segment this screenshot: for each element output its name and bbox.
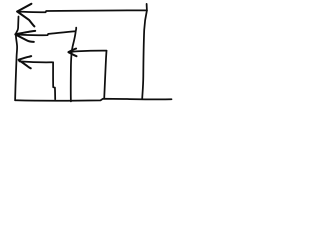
baseline (bottom horizontal line) bbox=[15, 99, 171, 101]
arrow A4 vertical (baseline up to its corner) bbox=[104, 51, 106, 99]
left vertical axis line bbox=[15, 17, 18, 101]
arrow A1 head (left-pointing, at top of axis) bbox=[17, 4, 31, 12]
arrow A1 right vertical (baseline up to top-right corner, with overshoot tick) bbox=[142, 4, 147, 99]
arrow A4 horizontal shaft bbox=[70, 51, 107, 52]
arrow A3 horizontal shaft bbox=[19, 60, 52, 63]
arrow A2 vertical (baseline up to its corner, with overshoot tick) bbox=[71, 28, 76, 102]
arrow A1 top horizontal shaft bbox=[17, 10, 147, 12]
arrow A2 horizontal shaft bbox=[16, 31, 76, 35]
arrow A3 head bbox=[19, 56, 32, 60]
arrow A3 vertical (baseline up, jog at y=87) bbox=[53, 62, 55, 99]
arrow A2 head bbox=[15, 31, 35, 34]
arrow A4 head bbox=[69, 49, 77, 53]
